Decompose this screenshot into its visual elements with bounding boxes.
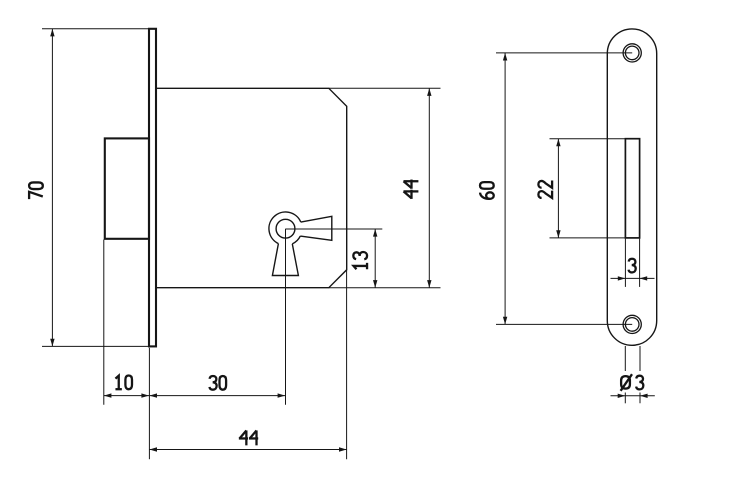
dim 3 dimension line [611, 277, 655, 279]
dim diameter-3 dimension line [611, 395, 655, 397]
dim 44 bottom label [239, 430, 258, 445]
dim 13 dimension line [374, 229, 376, 288]
dim 22 bottom extension line [550, 237, 626, 239]
dim 10 dimension line [104, 395, 149, 397]
dim 30 label [209, 376, 226, 390]
dim diameter-3 right extension line [639, 346, 641, 403]
dim 3 left extension line [624, 239, 626, 287]
dim 44 right label [404, 180, 419, 199]
dim 44 bottom dimension line [149, 449, 346, 451]
lock body bottom edge extension line [329, 287, 441, 289]
dim 70 top arrow [50, 29, 54, 37]
bottom screw hole outer circle [623, 315, 641, 333]
dim 13 bottom arrow [373, 280, 377, 288]
dim 70 label [29, 182, 43, 199]
dim 60 bottom extension line [496, 323, 632, 325]
dim 22 bottom arrow [556, 230, 560, 238]
lock body outline with chamfered right corners [157, 88, 347, 287]
dim 22 top extension line [550, 138, 626, 140]
dim 70 dimension line [51, 29, 53, 347]
dim 44 right top arrow [427, 88, 431, 96]
dim 10 left extension line [103, 240, 105, 405]
dim 44 right dimension line [428, 88, 430, 287]
dim 3 right extension line [639, 239, 641, 287]
deadbolt [105, 138, 149, 238]
bolt slot [625, 139, 639, 238]
dim 3 left arrow outside [618, 276, 626, 280]
dim 30 dimension line [149, 395, 285, 397]
dim 3 right arrow outside [640, 276, 648, 280]
dim 10 right arrow [141, 393, 149, 397]
dim 22 top arrow [556, 139, 560, 147]
dim 30 left arrow [149, 393, 157, 397]
keyhole lower trapezoid [272, 244, 298, 276]
faceplate edge (left side view, double line) [149, 29, 156, 347]
dim 13 top arrow [373, 229, 377, 237]
dim 22 label [538, 181, 552, 198]
top screw hole outer circle [623, 44, 641, 62]
striker faceplate (front view, stadium shape) [607, 29, 656, 345]
dim 44 bottom right extension line [346, 270, 348, 459]
dim 44 bottom left arrow [149, 447, 157, 451]
dim 70 bottom arrow [50, 339, 54, 347]
dim 22 dimension line [557, 139, 559, 238]
shared extension line at faceplate left edge [148, 348, 150, 459]
keyhole horizontal centerline [286, 228, 383, 230]
dim 70 bottom extension line [42, 345, 153, 347]
keyhole vertical centerline [285, 229, 287, 405]
dim 44 right bottom arrow [427, 280, 431, 288]
dim 30 right arrow [278, 393, 286, 397]
dim diameter-3 label [621, 374, 644, 391]
top screw hole inner circle [625, 46, 639, 60]
dim 13 label [353, 252, 367, 269]
dim 10 left arrow [104, 393, 112, 397]
dim 3 label [629, 259, 636, 273]
dim diameter-3 left extension line [624, 346, 626, 403]
dim 10 label [115, 376, 132, 390]
dim diameter-3 right arrow outside [640, 394, 648, 398]
dim diameter-3 left arrow outside [618, 394, 626, 398]
dim 60 label [480, 182, 494, 199]
lock body top edge extension line [329, 87, 441, 89]
dim 60 dimension line [504, 53, 506, 325]
dim 44 bottom right arrow [339, 447, 347, 451]
keyhole outer arc [269, 212, 301, 244]
dim 60 top arrow [503, 53, 507, 61]
dim 70 top extension line [42, 28, 148, 30]
dim 60 top extension line [496, 52, 632, 54]
dim 60 bottom arrow [503, 317, 507, 325]
bottom screw hole inner circle [625, 318, 639, 332]
white mask behind diameter label [618, 371, 647, 393]
key bit wedge [300, 216, 332, 240]
keyhole bore (inner circle) [276, 219, 295, 238]
